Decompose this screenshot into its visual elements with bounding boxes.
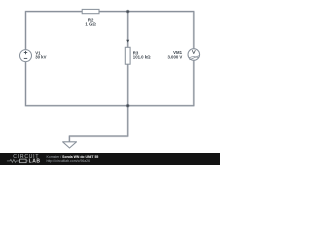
ground: [63, 142, 77, 148]
label R2: [88, 17, 94, 22]
svg-text:3.000 V: 3.000 V: [167, 54, 182, 59]
wire top run: V1 top-left corner across to VM1 top-right corner: [26, 12, 194, 50]
voltage source V1: [20, 50, 32, 62]
value 3.000 V: [167, 54, 182, 59]
CircuitLab logo wire + box + LAB: [7, 159, 41, 165]
meter arc: [189, 57, 199, 58]
watermark caption line 2: [47, 159, 91, 163]
svg-text:Komster / Sonda WN do UNIT 55: Komster / Sonda WN do UNIT 55: [47, 155, 99, 159]
soft underlay of wires: [26, 12, 194, 142]
label R3: [133, 50, 139, 55]
svg-text:http://circuitlab.com/c/96a26: http://circuitlab.com/c/96a26: [47, 159, 91, 163]
node junction bottom (R3 / bottom wire): [126, 104, 130, 108]
meter needle: [190, 56, 199, 60]
svg-text:1 GΩ: 1 GΩ: [85, 22, 96, 27]
wire bottom run: V1 bottom down, across to below VM1: [26, 60, 194, 105]
svg-text:30 kV: 30 kV: [35, 55, 46, 60]
wire R3 top lead: [127, 12, 129, 48]
resistor R2: [82, 9, 99, 13]
current arrow on R3 top lead: [126, 40, 129, 43]
watermark caption line 1: [47, 155, 99, 159]
node junction top (R3 / top wire): [126, 10, 130, 14]
wire R3 bottom lead to ground: [69, 64, 127, 142]
svg-text:101.0 kΩ: 101.0 kΩ: [133, 55, 151, 60]
value 101.0 kΩ: [133, 55, 151, 60]
value 1 GΩ: [85, 22, 96, 27]
label VM1: [173, 50, 182, 55]
CircuitLab logo CIRCUIT: [13, 154, 39, 160]
value 30 kV: [35, 55, 46, 60]
resistor R3: [125, 47, 130, 64]
watermark bar: [0, 153, 220, 165]
voltmeter VM1: [188, 49, 200, 61]
svg-text:LAB: LAB: [29, 159, 41, 165]
label V1: [35, 50, 41, 55]
